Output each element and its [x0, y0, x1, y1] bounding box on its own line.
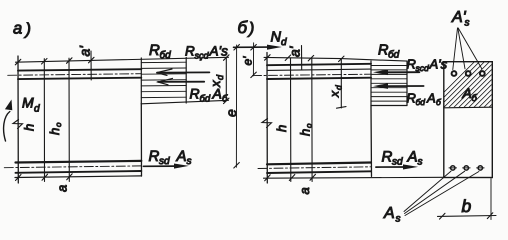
svg-text:б: б: [472, 93, 478, 104]
label A's top: [451, 9, 470, 29]
compression arrow Rbd Ab (b): [385, 85, 424, 87]
svg-text:o: o: [54, 122, 63, 127]
arrowhead Rsd As (a): [174, 164, 189, 169]
svg-text:a': a': [287, 45, 303, 57]
label h (a): [22, 124, 37, 131]
svg-text:a': a': [77, 45, 93, 57]
top reinforcement bar 1 A's (a): [18, 69, 141, 70]
e' bottom tick: [251, 72, 256, 78]
svg-text:A: A: [383, 205, 395, 222]
svg-text:): ): [247, 21, 254, 38]
arrowhead Rscd (b): [373, 70, 388, 76]
top edge dimension line (a): [16, 57, 229, 62]
label h (b): [274, 125, 289, 132]
top reinforcement bar 2 A's (b): [267, 78, 371, 79]
label Rscd A's (b): [407, 57, 448, 74]
svg-text:h: h: [274, 125, 289, 132]
xd bottom tick (b): [337, 107, 347, 109]
svg-text:b: b: [462, 196, 472, 216]
label Rsd As (b): [382, 149, 423, 168]
open arrowhead Rbd Ab (a): [158, 78, 173, 84]
a' extension line (a): [90, 51, 92, 80]
leader A's 2: [458, 28, 465, 69]
label Rsd As (a): [149, 148, 192, 167]
moment arc Md: [4, 112, 18, 142]
svg-text:s: s: [465, 18, 470, 29]
bottom edge dimension line (a): [15, 176, 142, 178]
top thin line A's (b): [267, 69, 371, 70]
xd dimension line (b): [340, 59, 342, 108]
width dimension line b: [438, 215, 497, 218]
svg-text:s: s: [187, 156, 192, 167]
svg-text:d: d: [34, 104, 40, 115]
tick at left end of top line (a): [15, 59, 20, 65]
svg-text:A: A: [176, 148, 187, 165]
svg-text:d: d: [281, 37, 287, 48]
svg-text:e: e: [223, 109, 239, 117]
svg-text:s: s: [396, 214, 401, 225]
right edge below block (b): [370, 106, 373, 177]
svg-text:бd: бd: [416, 97, 426, 107]
label Rbd Ab (b): [407, 91, 443, 108]
break symbol on left edge (b): [262, 119, 272, 128]
bottom tick h0 (b): [310, 174, 316, 180]
open arrowhead Rscd (a): [157, 69, 173, 75]
svg-text:e': e': [241, 56, 255, 66]
top rebar circle 1: [452, 71, 457, 76]
svg-text:бd: бd: [388, 50, 400, 61]
e' dimension line: [252, 43, 254, 76]
svg-text:M: M: [22, 95, 34, 111]
label As bottom: [383, 205, 401, 225]
bottom rebar stub 2: [463, 167, 471, 169]
svg-text:s: s: [418, 157, 423, 168]
svg-text:R: R: [407, 57, 416, 72]
svg-text:x: x: [328, 90, 342, 98]
bottom edge dimension line (b): [264, 176, 444, 179]
right edge below block (a): [140, 104, 142, 177]
bottom tick h (b): [289, 175, 295, 181]
label a' (a): [77, 45, 93, 57]
top rebar circle 2: [466, 71, 471, 76]
left edge (a): [17, 56, 19, 183]
tick at h line top (b): [285, 55, 291, 61]
svg-text:a: a: [297, 187, 312, 194]
h0 dimension line (a): [68, 58, 70, 181]
top rebar circle 3: [480, 71, 485, 76]
compression arrow Rscd (b): [385, 71, 419, 73]
h dimension line (a): [43, 59, 45, 182]
svg-text:R: R: [190, 86, 200, 102]
arrowhead Nd: [267, 45, 282, 50]
svg-text:scd: scd: [416, 63, 430, 73]
stress block Rbd (b): [371, 61, 407, 106]
A's centerline (a): [8, 74, 142, 76]
moment arrowhead Md: [5, 100, 12, 111]
svg-text:x: x: [208, 80, 223, 88]
leader As 3: [405, 172, 479, 216]
leader A's 1: [453, 28, 458, 70]
tick at h0 line top (a): [67, 58, 73, 64]
As centerline (a): [4, 166, 141, 168]
svg-text:A: A: [407, 149, 418, 166]
svg-text:A's: A's: [429, 57, 448, 72]
e dimension line: [235, 45, 237, 167]
bottom rebar circle 1: [451, 166, 455, 170]
e bottom tick: [234, 163, 240, 169]
tick at a' extension top (a): [89, 57, 95, 63]
label a (a): [55, 185, 70, 192]
svg-text:A: A: [462, 85, 472, 101]
e' top tick: [251, 45, 256, 51]
bottom tick left (b): [265, 175, 271, 181]
svg-text:h: h: [298, 129, 313, 136]
svg-text:A's: A's: [209, 44, 229, 59]
tick at h line top (a): [42, 59, 48, 65]
label a (b): [297, 187, 312, 194]
top reinforcement bar 1 A's (b): [267, 64, 371, 65]
label Rbd (a): [149, 42, 171, 61]
svg-text:sçd: sçd: [195, 51, 210, 61]
svg-text:o: o: [305, 123, 314, 128]
label e': [241, 56, 255, 66]
xd dimension line (a): [225, 58, 227, 101]
stress block hatch (b): [371, 66, 407, 102]
label Rbd Ab (a): [190, 86, 229, 105]
xd bottom tick (a): [224, 98, 230, 104]
a' extension line (b): [301, 46, 303, 71]
left edge (b): [266, 53, 268, 184]
stress block bottom edge extended (a): [141, 100, 228, 104]
label h0 (a): [47, 122, 63, 135]
diagonal hatch of compression zone: [428, 61, 508, 108]
svg-text:A: A: [426, 91, 436, 106]
label xd (b): [328, 85, 344, 98]
bottom rebar stub 1: [449, 167, 457, 169]
svg-text:б: б: [238, 18, 249, 37]
As centerline (b): [258, 167, 371, 169]
bottom reinforcement bar 1 As (a): [16, 161, 142, 163]
svg-text:R: R: [185, 44, 195, 59]
label Nd: [271, 30, 288, 49]
h0 dimension line (b): [311, 58, 313, 182]
h dimension line (b): [290, 58, 292, 182]
bottom reinforcement bar 2 As (b): [267, 171, 371, 173]
bottom tick h0 (a): [67, 174, 73, 180]
label Md: [22, 95, 40, 115]
top reinforcement bar 2 A's (a): [18, 78, 141, 79]
bottom reinforcement bar 2 As (a): [16, 171, 142, 173]
tension arrow Rsd As (a): [143, 165, 176, 167]
bottom reinforcement bar 1 As (b): [267, 163, 371, 165]
tick at h0 line top (b): [308, 55, 314, 61]
svg-text:a: a: [55, 185, 70, 192]
A's centerline (b): [253, 74, 372, 75]
svg-text:бd: бd: [160, 50, 172, 61]
svg-text:): ): [24, 21, 32, 39]
svg-text:h: h: [47, 128, 62, 135]
svg-text:h: h: [22, 124, 37, 131]
bottom tick left (a): [16, 175, 22, 181]
tension arrow Rsd As (b): [376, 166, 405, 168]
leader A's 3: [458, 28, 482, 69]
svg-text:sd: sd: [392, 157, 403, 168]
e top tick: [234, 45, 240, 51]
compression arrow Rscd (a): [157, 71, 209, 73]
cross-section outline: [444, 62, 493, 178]
force arrow Nd: [234, 46, 271, 48]
compression arrow Rbd Ab (a): [158, 81, 204, 83]
width dim tick right: [487, 213, 493, 219]
break symbol on left edge (a): [13, 120, 23, 129]
svg-text:R: R: [149, 42, 160, 59]
compression zone hatch boundary: [444, 106, 493, 109]
svg-text:R: R: [382, 149, 393, 166]
svg-text:R: R: [407, 91, 416, 106]
svg-text:R: R: [149, 148, 160, 165]
xd top tick (a): [224, 55, 230, 61]
label Rscd A's (a): [185, 44, 228, 61]
bottom tick h (a): [42, 174, 48, 180]
width dimension extension line right: [490, 179, 492, 220]
bottom rebar circle 3: [478, 166, 482, 170]
width dim tick left: [440, 213, 446, 219]
tick at left end of top line (b): [265, 55, 271, 61]
leader As 1: [404, 171, 451, 211]
stress block Rbd (a): [141, 58, 186, 104]
label xd (a): [208, 74, 225, 88]
label e: [223, 109, 239, 117]
bottom rebar stub 3: [477, 167, 485, 169]
bottom rebar circle 2: [464, 166, 468, 170]
svg-text:а: а: [13, 20, 22, 38]
top edge dimension line (b): [264, 57, 407, 61]
label a' (b): [287, 45, 303, 57]
xd top tick (b): [339, 56, 345, 62]
arrowhead Rbd Ab (b): [373, 83, 388, 89]
svg-text:бd: бd: [200, 94, 211, 105]
label h0 (b): [298, 123, 314, 136]
stress block hatch (a): [141, 62, 186, 97]
svg-text:N: N: [271, 30, 282, 46]
leader As 2: [405, 171, 465, 213]
label Ab in section: [462, 85, 478, 104]
label Rbd (b): [378, 43, 400, 61]
svg-text:sd: sd: [159, 156, 170, 167]
arrowhead Rsd As (b): [403, 164, 418, 169]
svg-text:d: d: [334, 85, 344, 90]
